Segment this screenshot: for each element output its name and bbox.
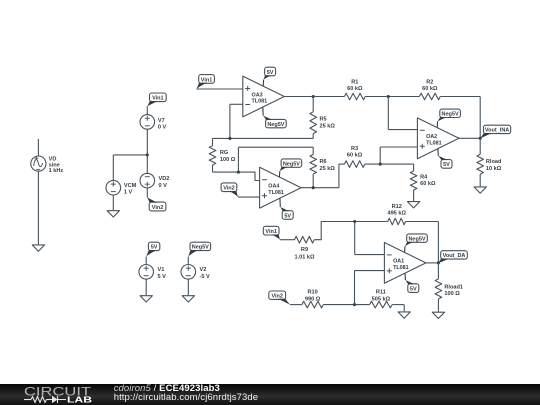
svg-text:OA4: OA4 xyxy=(268,184,279,190)
svg-text:Rload1: Rload1 xyxy=(444,284,463,290)
svg-text:TL081: TL081 xyxy=(393,265,409,271)
wire B (RG bottom to OA4-) xyxy=(213,172,260,180)
flag Neg5V at OA3 xyxy=(263,107,286,128)
svg-text:Vin2: Vin2 xyxy=(271,293,283,299)
svg-text:R3: R3 xyxy=(351,146,358,152)
bottom credit bar xyxy=(0,384,540,405)
svg-text:R5: R5 xyxy=(320,117,327,123)
CircuitLab logo xyxy=(24,384,94,405)
wire R6 top xyxy=(312,147,314,154)
wire OA4 out to R3 xyxy=(339,164,345,188)
wire R2 right feedback xyxy=(440,97,480,139)
node R9/R12/OA1- xyxy=(353,220,356,223)
svg-text:Vin1: Vin1 xyxy=(152,96,164,102)
wire Vin2 to R10 xyxy=(290,304,302,306)
wire VD2 to Vin2 flag xyxy=(146,188,148,198)
wire 5V to V1 xyxy=(145,257,147,265)
wire R6 branch xyxy=(238,147,313,172)
svg-text:OA3: OA3 xyxy=(252,92,263,98)
resistor R3 (60 k) xyxy=(344,146,364,168)
node R6/OA4 out xyxy=(312,186,315,189)
node R10/R11/OA1+ xyxy=(353,303,356,306)
flag Neg5V at OA1 xyxy=(405,234,428,253)
svg-text:VCM: VCM xyxy=(124,183,137,189)
wire R5 bottom xyxy=(312,134,314,139)
resistor R6 (25 k) xyxy=(310,155,335,175)
svg-text:25 kΩ: 25 kΩ xyxy=(320,166,336,172)
flag 5V at OA2 xyxy=(438,149,452,168)
svg-text:5V: 5V xyxy=(151,245,158,251)
svg-text:TL081: TL081 xyxy=(252,99,268,105)
op-amp OA4 (TL081) xyxy=(260,167,302,208)
svg-text:RG: RG xyxy=(220,150,228,156)
op-amp OA2 (TL081) xyxy=(417,118,459,159)
svg-text:R9: R9 xyxy=(301,247,308,253)
svg-text:LAB: LAB xyxy=(67,396,92,405)
wire OA3 output xyxy=(284,96,313,98)
resistor R10 (990) xyxy=(302,290,323,308)
wire R5 top xyxy=(312,97,314,112)
flag 5V at OA4 xyxy=(280,198,293,220)
svg-text:R4: R4 xyxy=(420,174,428,180)
voltage source V7 (0 V) xyxy=(140,115,167,131)
svg-text:OA1: OA1 xyxy=(393,259,404,265)
resistor R4 (60 k) xyxy=(410,171,436,190)
svg-text:Neg5V: Neg5V xyxy=(283,161,300,167)
ground below R4 xyxy=(407,202,419,208)
flag Vin1 at OA3 xyxy=(197,75,215,89)
svg-text:60 kΩ: 60 kΩ xyxy=(347,152,363,158)
node junction V7/VD2/VCM xyxy=(146,153,149,156)
resistor R12 (495 k) xyxy=(387,204,406,225)
wire OA3 - input xyxy=(230,104,243,138)
op-amp OA1 (TL081) xyxy=(384,243,426,284)
svg-text:R6: R6 xyxy=(320,159,327,165)
svg-text:Vout_DA: Vout_DA xyxy=(443,253,466,259)
svg-text:Vin1: Vin1 xyxy=(265,229,277,235)
svg-text:R10: R10 xyxy=(307,290,317,296)
flag Vout_INA xyxy=(480,125,511,138)
svg-text:5V: 5V xyxy=(410,286,417,292)
wire to VCM xyxy=(113,155,147,181)
ground at R11 xyxy=(398,312,410,318)
flag Neg5V at V2 xyxy=(188,242,210,256)
wire Rload1 top xyxy=(437,263,439,279)
wire Vin1 to OA3 + xyxy=(197,88,243,90)
wire Rload1 bottom xyxy=(437,299,439,312)
wire VD bottom xyxy=(37,171,39,244)
wire OA2 + riser xyxy=(380,147,417,164)
op-amp OA3 (TL081) xyxy=(243,76,284,117)
wire V1 to ground xyxy=(145,279,147,295)
flag Neg5V at OA2 xyxy=(437,109,460,127)
svg-text:Vout_INA: Vout_INA xyxy=(485,128,509,134)
wire Rload top xyxy=(479,138,481,154)
flag Vout_DA xyxy=(438,251,467,263)
wire V7 to VD2 xyxy=(146,129,148,173)
wire OA4 output xyxy=(301,187,339,189)
flag 5V at OA1 xyxy=(405,273,419,292)
wire OA1 + riser xyxy=(355,271,385,305)
wire Neg5V to V2 xyxy=(187,257,189,265)
resistor Rload (10 k) xyxy=(477,154,502,174)
svg-text:60 kΩ: 60 kΩ xyxy=(347,86,363,92)
wire A (RG top to R5) xyxy=(213,137,314,139)
svg-text:505 kΩ: 505 kΩ xyxy=(372,296,391,302)
wire R12 feedback xyxy=(406,222,439,263)
wire VCM to ground xyxy=(112,195,114,210)
wire OA2 - input riser xyxy=(388,97,417,130)
ground below V2 xyxy=(182,296,194,302)
ground below Rload1 xyxy=(432,312,444,318)
wire R4 top xyxy=(413,164,415,171)
wire VD top xyxy=(37,139,39,156)
flag 5V at OA3 xyxy=(263,67,275,86)
svg-text:1.01 kΩ: 1.01 kΩ xyxy=(294,254,315,260)
node OA3- on wire A xyxy=(228,137,231,140)
svg-text:100 Ω: 100 Ω xyxy=(444,291,460,297)
svg-text:R11: R11 xyxy=(376,290,386,296)
svg-text:10 kΩ: 10 kΩ xyxy=(486,166,502,172)
voltage source VD2 (0 V) xyxy=(140,173,169,189)
svg-text:TL081: TL081 xyxy=(268,190,284,196)
wire R4 bottom xyxy=(413,190,415,201)
svg-text:5V: 5V xyxy=(284,213,291,219)
wire R3 right xyxy=(365,163,414,165)
wire R10 to junction xyxy=(323,304,369,306)
voltage source V1 (5 V) xyxy=(139,265,166,281)
svg-text:990 Ω: 990 Ω xyxy=(305,296,321,302)
svg-text:5 V: 5 V xyxy=(158,274,167,280)
svg-text:R12: R12 xyxy=(392,204,402,210)
wire R9 to R12 row xyxy=(314,222,388,240)
flag Vin2 at VD2 xyxy=(147,197,166,211)
svg-text:Vin2: Vin2 xyxy=(152,205,164,211)
node OA2 out / Rload / R2 xyxy=(479,137,482,140)
resistor R2 (60 k) xyxy=(419,79,440,100)
svg-text:Neg5V: Neg5V xyxy=(408,236,425,242)
flag Vin2 at R10 xyxy=(269,291,290,305)
svg-text:5V: 5V xyxy=(267,70,274,76)
svg-text:Vin2: Vin2 xyxy=(223,186,235,192)
voltage source VCM (1 V) xyxy=(106,180,137,195)
svg-text:0 V: 0 V xyxy=(159,183,168,189)
ground below VCM xyxy=(107,211,119,217)
svg-text:100 Ω: 100 Ω xyxy=(220,157,236,163)
svg-text:Neg5V: Neg5V xyxy=(442,112,459,118)
svg-text:Neg5V: Neg5V xyxy=(267,122,284,128)
svg-text:R2: R2 xyxy=(426,79,433,85)
resistor R9 (1.01 k) xyxy=(294,236,315,260)
ground below Rload xyxy=(474,187,486,193)
flag 5V at V1 xyxy=(146,242,160,256)
node R3/R4/OA2+ xyxy=(379,163,382,166)
resistor Rload1 (100) xyxy=(435,279,463,299)
wire OA1 output xyxy=(426,262,439,264)
ground below VD xyxy=(32,245,44,251)
svg-text:495 kΩ: 495 kΩ xyxy=(387,211,406,217)
resistor RG (100) xyxy=(209,146,236,165)
svg-text:TL081: TL081 xyxy=(426,141,442,147)
wire Vin2 to OA4 + xyxy=(238,196,260,198)
svg-text:V7: V7 xyxy=(158,118,165,124)
wire R1 left xyxy=(313,96,344,98)
wire RG bottom xyxy=(212,165,214,172)
svg-text:0 V: 0 V xyxy=(158,125,167,131)
node OA1 out xyxy=(437,261,440,264)
node R6 branch on wire B xyxy=(237,171,240,174)
svg-text:Rload: Rload xyxy=(486,159,502,165)
svg-text:R1: R1 xyxy=(351,79,358,85)
flag Vin1 at V7 xyxy=(147,93,166,106)
svg-text:60 kΩ: 60 kΩ xyxy=(420,181,436,187)
flag Vin1 at R9 xyxy=(263,226,280,239)
flag Vin2 at OA4 xyxy=(221,183,238,197)
resistor R1 (60 k) xyxy=(344,79,365,100)
wire R11 to ground xyxy=(392,305,404,312)
svg-text:1 kHz: 1 kHz xyxy=(49,168,64,174)
node OA3 out / R5 / R1 xyxy=(312,95,315,98)
wire Rload bottom xyxy=(479,174,481,186)
wire OA2 output xyxy=(459,137,480,139)
resistor R11 (505 k) xyxy=(370,290,393,308)
wire Vin1 to V7 xyxy=(146,106,148,115)
svg-text:5V: 5V xyxy=(443,162,450,168)
wire RG top xyxy=(212,138,214,145)
wire OA1 - riser xyxy=(355,222,385,255)
node R1/R2/OA2- xyxy=(387,95,390,98)
resistor R5 (25 k) xyxy=(310,112,335,134)
wire R1 right to R2 left xyxy=(365,96,419,98)
svg-text:VD2: VD2 xyxy=(159,176,170,182)
ground below V1 xyxy=(140,296,152,302)
svg-text:25 kΩ: 25 kΩ xyxy=(320,124,336,130)
svg-text:Vin1: Vin1 xyxy=(201,77,213,83)
wire V2 to ground xyxy=(187,279,189,295)
svg-text:1 V: 1 V xyxy=(124,190,133,196)
svg-text:V1: V1 xyxy=(158,267,165,273)
svg-text:V2: V2 xyxy=(200,267,207,273)
voltage source V2 (-5 V) xyxy=(181,265,210,281)
svg-text:-5 V: -5 V xyxy=(200,274,211,280)
wire R6 bottom xyxy=(312,174,314,188)
svg-text:OA2: OA2 xyxy=(426,134,437,140)
wire Vin1 to R9 xyxy=(280,239,295,241)
flag Neg5V at OA4 xyxy=(279,159,301,178)
svg-text:60 kΩ: 60 kΩ xyxy=(422,86,438,92)
svg-text:Neg5V: Neg5V xyxy=(192,245,209,251)
voltage source VD (sine 1 kHz) xyxy=(31,156,64,174)
